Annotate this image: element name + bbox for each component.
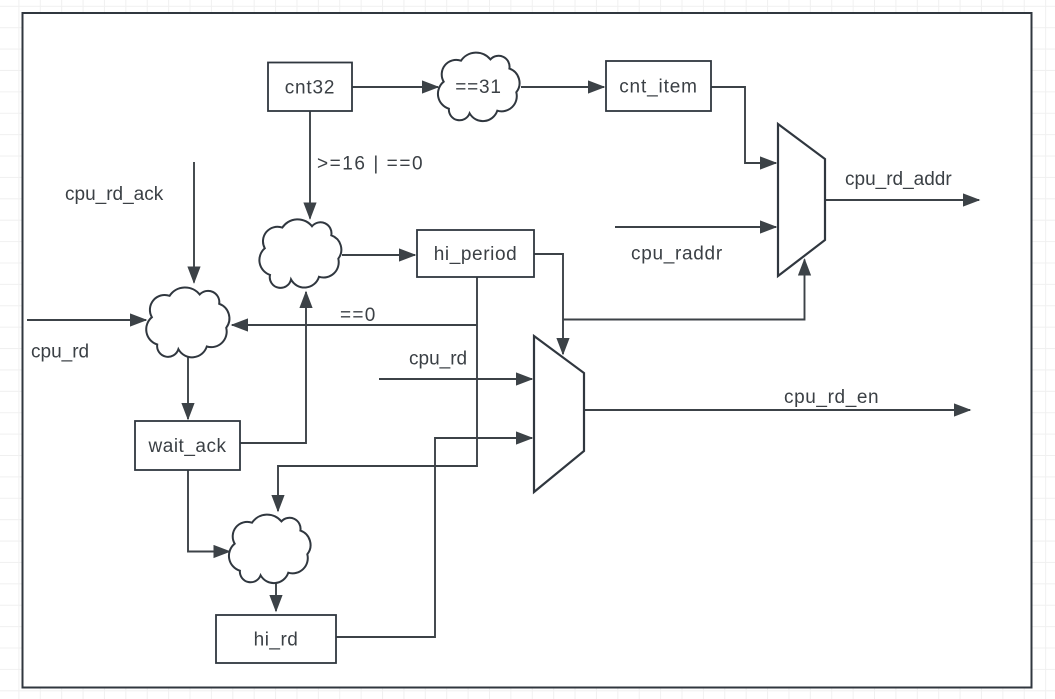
wire: cloud L2 to hi_period xyxy=(342,254,415,256)
svg-text:cpu_rd_ack: cpu_rd_ack xyxy=(65,184,164,205)
wire: cpu_rd into cloud L3 xyxy=(27,319,146,321)
wire: hi_period down to cloud L4 xyxy=(278,277,477,511)
svg-text:hi_rd: hi_rd xyxy=(254,630,299,651)
wire: cpu_rd_ack down to cloud L3 xyxy=(193,162,195,283)
svg-text:cnt32: cnt32 xyxy=(285,77,335,98)
wire: mux U1 output cpu_rd_addr xyxy=(825,199,979,201)
svg-text:==31: ==31 xyxy=(455,77,502,98)
svg-text:hi_period: hi_period xyxy=(434,244,518,265)
wire: cnt32 to ==31 cloud xyxy=(352,86,438,88)
svg-text:cpu_raddr: cpu_raddr xyxy=(631,244,723,265)
cloud logic L4 (hi_rd input) xyxy=(229,515,311,583)
wire: cpu_raddr to mux U1 input xyxy=(615,226,776,228)
mux U1 (cpu_rd_addr mux) xyxy=(778,124,825,276)
svg-text:wait_ack: wait_ack xyxy=(148,436,227,457)
register box cnt_item xyxy=(606,61,711,111)
svg-text:==0: ==0 xyxy=(340,305,377,326)
wire: mux U2 output cpu_rd_en xyxy=(584,409,970,411)
cloud logic L3 (wait_ack input) xyxy=(146,287,229,357)
svg-text:cpu_rd_addr: cpu_rd_addr xyxy=(845,169,952,190)
wire: cloud L3 to wait_ack xyxy=(187,356,189,419)
cloud logic ==31 xyxy=(438,53,520,121)
wire: wait_ack to cloud L2 xyxy=(240,292,306,443)
wire: cpu_rd to mux U2 input xyxy=(379,378,532,380)
wire: ==31 cloud to cnt_item xyxy=(521,86,604,88)
svg-text:cpu_rd: cpu_rd xyxy=(409,349,467,370)
wire: cloud L4 to hi_rd xyxy=(275,582,277,611)
register box hi_rd xyxy=(216,615,336,663)
wire: wait_ack down to cloud L4 xyxy=(188,470,230,552)
wire: ==0 feedback to cloud L3 xyxy=(232,324,477,326)
wire: hi_period to mux U2 select (top) xyxy=(534,254,563,354)
register box wait_ack xyxy=(135,421,240,470)
svg-text:>=16 | ==0: >=16 | ==0 xyxy=(317,154,424,175)
svg-text:cpu_rd: cpu_rd xyxy=(31,342,89,363)
register box cnt32 xyxy=(268,63,352,112)
wire: cnt32 down to cloud L2 xyxy=(309,111,311,219)
wire: hi_rd to mux U2 input xyxy=(336,438,532,637)
mux U2 (cpu_rd_en mux) xyxy=(534,336,584,492)
cloud logic L2 (hi_period input) xyxy=(259,219,341,288)
wire: branch to mux U1 select (bottom) xyxy=(563,260,805,320)
svg-text:cnt_item: cnt_item xyxy=(619,77,698,98)
register box hi_period xyxy=(417,230,534,277)
svg-text:cpu_rd_en: cpu_rd_en xyxy=(784,387,879,408)
wire: cnt_item to mux U1 input xyxy=(711,87,776,163)
